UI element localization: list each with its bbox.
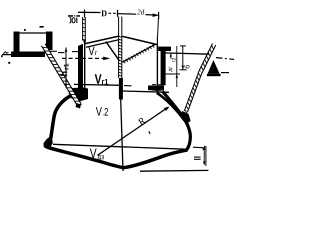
- top dim line mid: [118, 13, 136, 16]
- dim inner v2: [176, 46, 178, 87]
- datum triangle base: [207, 74, 221, 76]
- right chute foot blob2: [181, 111, 191, 124]
- datum triangle: [208, 60, 220, 74]
- top dim right arrow: [153, 13, 159, 17]
- corner right collar: [156, 36, 158, 45]
- right lining top bar: [158, 47, 171, 51]
- vessel shell left+bottom: [45, 95, 186, 168]
- label Vc1: [95, 74, 108, 84]
- right shoulder thick: [157, 93, 187, 123]
- top dim line left overshoot: [78, 11, 101, 13]
- br top ref line: [193, 146, 204, 149]
- right lining column: [161, 51, 166, 86]
- label right v1: [184, 65, 189, 68]
- cone roof left inner: [86, 40, 119, 48]
- support line left: [2, 54, 13, 56]
- br arrowhead: [203, 161, 205, 165]
- speck dash above box: [40, 26, 44, 28]
- top dim tick x84.5: [84, 10, 86, 18]
- joint line right low: [120, 91, 169, 92]
- left chute tip: [76, 103, 82, 109]
- collar rail b: [84, 17, 86, 41]
- collar rail a: [82, 17, 84, 41]
- dim right v1 arrow: [182, 66, 185, 70]
- top dim line right: [146, 14, 159, 17]
- scrap box top edge: [14, 32, 51, 34]
- label t01 top dashes: [68, 15, 80, 17]
- dim hc1 top arrow: [65, 47, 68, 52]
- label t01 one: [76, 18, 78, 23]
- dot below support line: [8, 62, 10, 64]
- joint dash right b: [152, 85, 162, 87]
- cone roof left outer: [85, 36, 119, 44]
- right chute strip upper: [199, 44, 216, 74]
- bath chord line: [53, 144, 189, 149]
- centerline lower: [121, 100, 123, 172]
- ledge under triangle: [221, 72, 229, 74]
- dim inner h2: [165, 73, 180, 75]
- label V.2: [96, 107, 108, 116]
- speck dot above box: [24, 29, 26, 31]
- radius line: [98, 107, 169, 155]
- lance hatch: [118, 36, 122, 76]
- label inner b: [169, 67, 173, 72]
- top dim right tick: [158, 12, 160, 19]
- lance rail a: [118, 17, 120, 79]
- right dashdot mid: [152, 84, 163, 86]
- dim right v1: [182, 46, 184, 70]
- platform dashdot: [216, 58, 234, 60]
- cone roof right outer: [122, 36, 157, 44]
- label V13: [90, 149, 104, 161]
- inner diagonal left: [106, 42, 120, 61]
- inner diagonal right hatch: [123, 45, 154, 64]
- label D: [101, 11, 106, 17]
- break mark: [4, 52, 9, 54]
- dim inner h1 arrow: [170, 53, 172, 58]
- br top hook: [202, 148, 204, 151]
- right chute foot blob: [181, 111, 191, 124]
- collar rungs: [82, 19, 85, 40]
- label Vg: [88, 47, 97, 55]
- baseline: [140, 169, 208, 172]
- left foot blob: [69, 88, 89, 102]
- br dash a: [194, 156, 201, 158]
- corner dot left: [83, 40, 85, 42]
- right extension line: [157, 19, 160, 37]
- top dim dashes: [109, 12, 117, 14]
- dim hc1 top tick c: [72, 51, 78, 53]
- br arrow line: [203, 149, 205, 165]
- right shell line: [156, 44, 158, 95]
- label t01 bracket: [70, 18, 71, 23]
- left shell line: [84, 41, 86, 95]
- left end tick: [1, 55, 3, 57]
- dim hc1 bottom arrow: [65, 84, 68, 89]
- dim hc1 top tick b: [58, 52, 65, 54]
- right foot blob: [148, 86, 164, 92]
- dim hc1 top tick a: [50, 50, 57, 52]
- scrap box right wall: [46, 32, 53, 51]
- inner diagonal right: [122, 44, 155, 62]
- lance thick lower: [119, 78, 123, 100]
- joint dash right a: [124, 85, 132, 87]
- right chute strip lower: [184, 71, 202, 113]
- dim right v1 top tick: [180, 45, 186, 47]
- br tick right: [204, 146, 206, 150]
- left lining column: [78, 44, 83, 91]
- dim inner h1 / platform line: [164, 53, 209, 54]
- scrap box left wall: [14, 32, 20, 57]
- heel wedge: [44, 135, 53, 147]
- label hc1: [61, 64, 69, 76]
- dim inner arrow up: [176, 74, 178, 78]
- tick below R: [149, 131, 151, 134]
- lance rail b: [121, 17, 123, 79]
- label t01 zero: [72, 18, 75, 23]
- bath level arrow: [103, 57, 110, 61]
- joint line left: [74, 83, 122, 86]
- vessel shell right: [164, 93, 191, 151]
- label inner a: [172, 58, 176, 62]
- scrap box bottom: [11, 52, 45, 58]
- label 2d: [137, 9, 144, 14]
- dim hc1 line: [65, 48, 67, 88]
- br vertical: [205, 146, 207, 166]
- top dim tick x117.5: [117, 10, 119, 17]
- bath level dashes: [62, 57, 104, 59]
- radius arrowhead: [164, 107, 170, 111]
- label R: [137, 117, 146, 126]
- br dash b: [194, 158, 201, 160]
- left chute strip: [42, 44, 82, 106]
- dim right v1 bottom tick: [180, 69, 187, 71]
